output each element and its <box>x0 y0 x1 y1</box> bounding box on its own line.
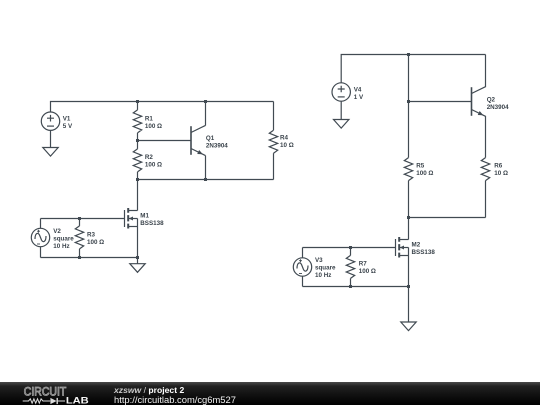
svg-text:10 Hz: 10 Hz <box>315 272 331 279</box>
svg-text:V3: V3 <box>315 257 323 264</box>
svg-text:100 Ω: 100 Ω <box>416 170 433 177</box>
svg-text:Q2: Q2 <box>487 96 496 103</box>
svg-text:2N3904: 2N3904 <box>206 142 228 149</box>
svg-text:square: square <box>53 236 74 243</box>
svg-text:V2: V2 <box>53 228 61 235</box>
svg-text:100 Ω: 100 Ω <box>87 239 104 246</box>
svg-text:CIRCUIT: CIRCUIT <box>24 386 67 399</box>
svg-text:10 Ω: 10 Ω <box>494 170 508 177</box>
svg-text:100 Ω: 100 Ω <box>145 123 162 130</box>
svg-text:square: square <box>315 264 336 271</box>
svg-text:BSS138: BSS138 <box>412 249 436 256</box>
svg-text:R2: R2 <box>145 154 154 161</box>
svg-text:R5: R5 <box>416 162 425 169</box>
svg-text:100 Ω: 100 Ω <box>359 268 376 275</box>
svg-text:10 Hz: 10 Hz <box>53 243 69 250</box>
svg-text:Q1: Q1 <box>206 135 215 142</box>
svg-text:R7: R7 <box>359 261 368 268</box>
svg-text:1 V: 1 V <box>354 94 364 101</box>
svg-text:LAB: LAB <box>66 396 89 405</box>
svg-text:10 Ω: 10 Ω <box>280 142 294 149</box>
svg-text:V4: V4 <box>354 86 362 93</box>
svg-text:R6: R6 <box>494 162 503 169</box>
svg-text:R4: R4 <box>280 134 289 141</box>
svg-text:M1: M1 <box>140 212 149 219</box>
svg-text:BSS138: BSS138 <box>140 220 164 227</box>
svg-text:V1: V1 <box>63 116 71 123</box>
svg-text:2N3904: 2N3904 <box>487 104 509 111</box>
svg-text:R3: R3 <box>87 231 96 238</box>
svg-text:R1: R1 <box>145 115 154 122</box>
svg-text:100 Ω: 100 Ω <box>145 161 162 168</box>
svg-text:5 V: 5 V <box>63 123 73 130</box>
svg-text:M2: M2 <box>412 242 421 249</box>
